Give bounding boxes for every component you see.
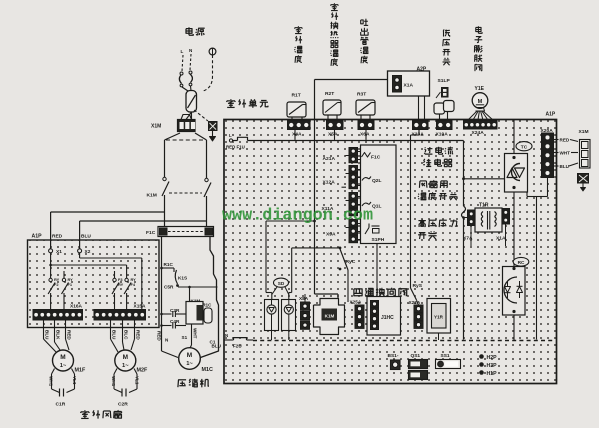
connector X6A (358, 121, 374, 138)
wire main bus L (horizontal) (248, 140, 464, 142)
label 电源 (power supply) (186, 27, 205, 35)
wire N entry with fuse F2U (212, 333, 254, 349)
fan motor M1F (53, 350, 86, 374)
surge absorber SD (274, 278, 289, 287)
svg-text:Q1L: Q1L (372, 204, 382, 210)
node X2 (78, 249, 91, 255)
connector X25A (350, 300, 365, 329)
wire TC down to RC (513, 192, 515, 267)
svg-text:X9A: X9A (326, 232, 336, 238)
svg-text:RED: RED (157, 331, 162, 341)
overcurrent relay F1C contact (362, 153, 381, 161)
relay labels RY F2 RY F1 (54, 277, 73, 287)
connector X12A (323, 166, 358, 189)
wire bus to X7A (462, 216, 467, 219)
wire BLC to fan M2F (123, 320, 129, 350)
relay labels F3 RY F4 (118, 277, 136, 287)
indicator lamp H2P (479, 354, 497, 361)
svg-text:RY: RY (68, 277, 74, 282)
wire K1S to right (178, 286, 218, 289)
connector X24A (464, 121, 498, 137)
svg-text:BS1-: BS1- (388, 353, 399, 359)
wires below transformer connectors (471, 224, 506, 246)
ground (chassis earth at power entry) (209, 122, 218, 142)
wires SD to absorbers (272, 287, 289, 295)
svg-text:H1P: H1P (487, 371, 498, 377)
terminal strip X16A (33, 304, 83, 321)
thermistor R3T (356, 92, 375, 121)
svg-text:Y1E: Y1E (475, 86, 485, 92)
svg-text:SD: SD (278, 281, 285, 286)
svg-text:RED: RED (67, 330, 72, 340)
wire RED to fan M1F (66, 320, 72, 350)
svg-text:WHT: WHT (560, 151, 571, 156)
svg-text:M: M (187, 352, 192, 359)
svg-text:RY: RY (118, 282, 124, 287)
thermistor R2T (323, 91, 341, 121)
svg-text:M: M (60, 354, 65, 361)
fan relay contact RY2/F1 (62, 271, 69, 310)
fan capacitor C1R (49, 369, 78, 408)
label 低压开关 (low pressure switch) (443, 29, 451, 65)
label 压缩机 (compressor) (178, 379, 209, 388)
svg-text:BLU: BLU (560, 164, 570, 169)
wire WHT to X1M terminal (554, 151, 579, 156)
fan motor M2F (115, 350, 148, 374)
dashed earth wire (203, 55, 213, 91)
node L with fuse F1U on red wire (226, 133, 248, 150)
earth pick symbol (209, 48, 216, 55)
surge absorber element 2 (282, 300, 296, 331)
wire WHT to compressor (via K1M) (190, 287, 192, 349)
wire S1PH to J1HC (376, 244, 378, 297)
start relay contact K1S (175, 270, 187, 287)
svg-text:X1M: X1M (579, 129, 589, 135)
svg-text:X2: X2 (85, 249, 91, 255)
green watermark www.diangon.com (222, 207, 373, 226)
wire L feed (left vertical) (164, 140, 166, 177)
high pressure switch S1PH (365, 224, 385, 244)
svg-text:X25A: X25A (350, 300, 362, 305)
wire RED to compressor (162, 237, 179, 358)
svg-text:X8A: X8A (299, 296, 309, 301)
svg-text:K1M: K1M (147, 193, 157, 199)
fan relay contact RY1/F2 (48, 278, 55, 309)
wire RED to fan M2F (131, 320, 141, 350)
fan capacitor C2R (111, 369, 140, 408)
wire board edge to TC (513, 120, 515, 158)
wire BLK to fan M1F (55, 320, 61, 350)
relay coil K1M box (186, 302, 203, 325)
capacitor C4R (160, 319, 186, 329)
svg-text:X16A: X16A (70, 304, 83, 310)
connector A21A (323, 148, 358, 163)
svg-text:S1LP: S1LP (438, 78, 451, 84)
reversing valve solenoid Y1R (427, 299, 451, 341)
svg-text:J1HC: J1HC (381, 315, 394, 321)
mechanical link dashed K1M (169, 192, 202, 194)
label 室外风扇 (outdoor fan) (81, 410, 122, 418)
connector X23A (412, 121, 429, 138)
label 风扇用温度开关 (fan thermal switch) (418, 180, 458, 200)
connector X9A (326, 220, 358, 243)
svg-text:X1M: X1M (151, 124, 161, 130)
svg-text:X6A: X6A (360, 132, 370, 138)
wire X23A down to RyS (411, 130, 420, 289)
connector X22A (409, 300, 424, 328)
dashed earth wire to ground terminal (194, 110, 208, 121)
label 吐出管温度 (discharge pipe temp) (360, 19, 368, 64)
svg-text:R1C: R1C (203, 303, 213, 308)
svg-text:RyC: RyC (346, 259, 356, 265)
svg-text:www.diangon.com: www.diangon.com (222, 207, 373, 226)
connector X10A (436, 121, 453, 138)
svg-text:1~: 1~ (60, 363, 67, 369)
svg-text:1~: 1~ (122, 363, 129, 369)
svg-text:BLU: BLU (81, 234, 91, 240)
connector X4A (288, 121, 311, 138)
svg-text:Y1R: Y1R (434, 315, 444, 320)
svg-text:YL1: YL1 (135, 376, 140, 385)
wire BLU to fan M2F (111, 320, 119, 352)
svg-text:TC: TC (521, 145, 528, 151)
wire X2 branch (80, 253, 142, 310)
label 四通换向阀 (four-way reversing valve) (354, 288, 407, 297)
low pressure switch S1LP (434, 78, 454, 121)
wire A2P to board (long mid vertical) (315, 80, 388, 120)
wire contact2 to F1C (206, 196, 208, 227)
svg-text:X1A: X1A (404, 83, 414, 89)
wire label WHT (vertical) (193, 328, 198, 339)
fan thermal switch Q1L (362, 202, 382, 210)
four-way valve coil J1HC (367, 297, 401, 336)
svg-text:L: L (181, 49, 184, 54)
indicator lamp H1P (479, 370, 497, 377)
svg-text:YL1: YL1 (72, 376, 77, 385)
label 室外温度 (outdoor temp) (294, 26, 302, 63)
svg-text:H2P: H2P (487, 355, 498, 361)
wires absorbers to N bus (272, 331, 289, 341)
svg-text:SS1: SS1 (441, 353, 450, 359)
labels A1P RED BLU (32, 234, 92, 240)
fan thermal switch Q2L (362, 177, 382, 185)
wire TC bypass down (527, 192, 537, 340)
wire hooks pins to box (346, 152, 361, 240)
label 室外换热器温度 (heat exchanger temp) (330, 3, 338, 66)
svg-text:M1F: M1F (75, 368, 86, 374)
capacitor C5R label (164, 285, 174, 290)
wire A1P-X1 tap (51, 212, 165, 249)
svg-text:RED: RED (136, 330, 141, 340)
slide switch SS1 (436, 353, 461, 369)
svg-text:RyS: RyS (413, 283, 423, 289)
polarity tick (342, 186, 347, 188)
wire N bus (dashed) (253, 340, 554, 342)
connector X11A (322, 193, 358, 216)
label 电子膨胀阀 (electronic expansion valve) (474, 26, 482, 71)
svg-text:A1P: A1P (32, 234, 43, 240)
svg-text:R1C: R1C (164, 262, 174, 267)
wire contact1 to F1C (164, 195, 166, 227)
svg-text:A21A: A21A (323, 156, 336, 162)
svg-text:M1C: M1C (202, 367, 213, 373)
wire BLU to compressor (201, 237, 219, 358)
wire bus to TC box (462, 177, 504, 180)
contactor contact K1M pole 2 (204, 178, 211, 197)
wire N phase (dashed) (190, 54, 191, 70)
svg-text:1~: 1~ (186, 361, 193, 367)
svg-text:RED F1U: RED F1U (226, 145, 245, 150)
wire L phase (dashed) (182, 55, 183, 71)
diode bridge RC (503, 257, 529, 315)
wire BLU to X1M terminal (554, 163, 579, 169)
wires breaker to fuse (182, 86, 191, 91)
wire BLU to fan M1F (44, 320, 57, 352)
svg-text:A1P: A1P (546, 112, 556, 118)
label 过电流继电器 (overcurrent relay) (423, 147, 453, 167)
svg-text:RC: RC (518, 260, 525, 265)
svg-text:QS1: QS1 (411, 353, 421, 359)
electronic expansion valve Y1E (468, 86, 494, 121)
current transformer TC (505, 142, 533, 192)
pushbutton BS1 (388, 353, 401, 370)
svg-text:X10A: X10A (436, 132, 449, 138)
fuse main power (186, 91, 197, 113)
svg-text:X22A: X22A (409, 300, 421, 305)
svg-text:K1S: K1S (178, 276, 187, 281)
wire stubs sensors to bus (295, 130, 366, 140)
compressor motor M1C (165, 335, 216, 373)
svg-text:BLK: BLK (56, 330, 61, 340)
svg-text:H3P: H3P (487, 363, 498, 369)
wire vertical feed right section (462, 141, 466, 340)
terminal block X1M (power) (151, 115, 195, 132)
svg-text:RY: RY (131, 277, 137, 282)
svg-text:BLC: BLC (124, 330, 129, 340)
indicator lamp H3P (479, 362, 497, 369)
PTC resistor R1C (203, 303, 213, 324)
connector X1A (transformer secondary) (496, 209, 510, 242)
svg-text:WHT: WHT (193, 328, 198, 339)
svg-text:BLU: BLU (212, 344, 222, 349)
svg-text:WH1: WH1 (111, 376, 116, 387)
svg-text:C2R: C2R (118, 402, 128, 408)
wire RyC branch (289, 248, 340, 300)
label A1P main board (546, 112, 556, 118)
wires A2P to X23A (419, 96, 425, 121)
overcurrent relay F1C (compressor) (146, 227, 214, 237)
svg-text:RED: RED (52, 234, 63, 240)
defrost relay coil K1M (314, 299, 345, 335)
connector X5A (327, 121, 344, 138)
wire X20A to TC (537, 178, 548, 197)
svg-text:M2F: M2F (137, 368, 148, 374)
svg-text:M: M (123, 354, 128, 361)
svg-text:R2T: R2T (325, 91, 334, 97)
wire A1P-X2 tap (80, 221, 207, 249)
label 高压压力开关 (high pressure switch) (418, 219, 457, 239)
svg-text:BLU: BLU (112, 330, 117, 340)
svg-text:X1A: X1A (496, 236, 506, 242)
labels L N (181, 48, 194, 54)
thermistor R1T (287, 93, 306, 121)
svg-text:C5R: C5R (164, 285, 174, 290)
resistor R1C tap (160, 262, 174, 272)
svg-text:L: L (229, 133, 232, 138)
svg-text:F1C: F1C (146, 230, 156, 236)
svg-text:X1: X1 (56, 249, 62, 255)
relay contact RyS (411, 283, 423, 305)
wire X1 branch (49, 253, 126, 278)
svg-text:N: N (225, 333, 228, 338)
controller board A2P (388, 67, 430, 97)
svg-text:X24A: X24A (472, 130, 485, 136)
connector X7A (transformer primary) (463, 210, 475, 242)
wire fuse to X1M (186, 112, 192, 120)
transformer T1R (475, 203, 502, 233)
wire RED to X1M terminal (554, 138, 579, 143)
wire label RED (vertical) (157, 331, 162, 341)
wire N feed (right vertical) (206, 140, 208, 178)
wire shoulders under X1M (165, 133, 207, 140)
svg-text:WH1: WH1 (49, 376, 54, 387)
svg-text:X5A: X5A (328, 132, 338, 138)
svg-text:F1C: F1C (371, 155, 381, 161)
svg-text:S1: S1 (182, 335, 188, 340)
svg-text:C1R: C1R (56, 402, 66, 408)
wire RC to N bus (513, 315, 515, 341)
svg-text:F2U: F2U (233, 344, 242, 349)
fan relay contact RY4/F4 (124, 278, 131, 309)
svg-text:BLU: BLU (45, 330, 50, 340)
svg-text:RED: RED (560, 138, 570, 143)
svg-text:X15A: X15A (134, 304, 147, 310)
relay contact K1M (compressor start) (190, 289, 201, 304)
terminal strip X15A (94, 304, 146, 321)
terminal block X1M (right) (579, 129, 591, 168)
svg-text:RY: RY (54, 277, 60, 282)
relay contact RyC (339, 247, 356, 303)
svg-text:X4A: X4A (292, 132, 302, 138)
connector X8A (299, 294, 310, 329)
DIP switch QS1 (409, 353, 428, 380)
surge absorber element 1 (265, 300, 279, 331)
svg-text:S1PH: S1PH (372, 237, 385, 243)
circuit breaker poles (179, 71, 192, 87)
wire mid vertical (A2P to K1M relay) (315, 120, 339, 299)
svg-text:M: M (478, 99, 483, 105)
outdoor unit main PCB A1P board outline (224, 120, 557, 384)
svg-text:X12A: X12A (323, 180, 336, 186)
connector X20A (541, 128, 554, 178)
fan relay contact F3/RY3 (112, 271, 119, 310)
svg-text:R3T: R3T (357, 92, 366, 98)
contactor contact K1M pole 1 (147, 177, 170, 198)
inner protection box (361, 145, 397, 244)
node X1 (49, 249, 63, 255)
capacitor C3R (160, 308, 186, 317)
svg-text:K1M: K1M (325, 314, 335, 319)
ground (chassis earth right) (578, 174, 589, 192)
label 室外单元 (outdoor unit) (227, 99, 268, 108)
fan control PCB board outline (lower-left) (28, 240, 160, 328)
svg-text:R1T: R1T (292, 93, 301, 99)
svg-text:Q2L: Q2L (372, 178, 382, 184)
wire SD tap (266, 220, 316, 300)
